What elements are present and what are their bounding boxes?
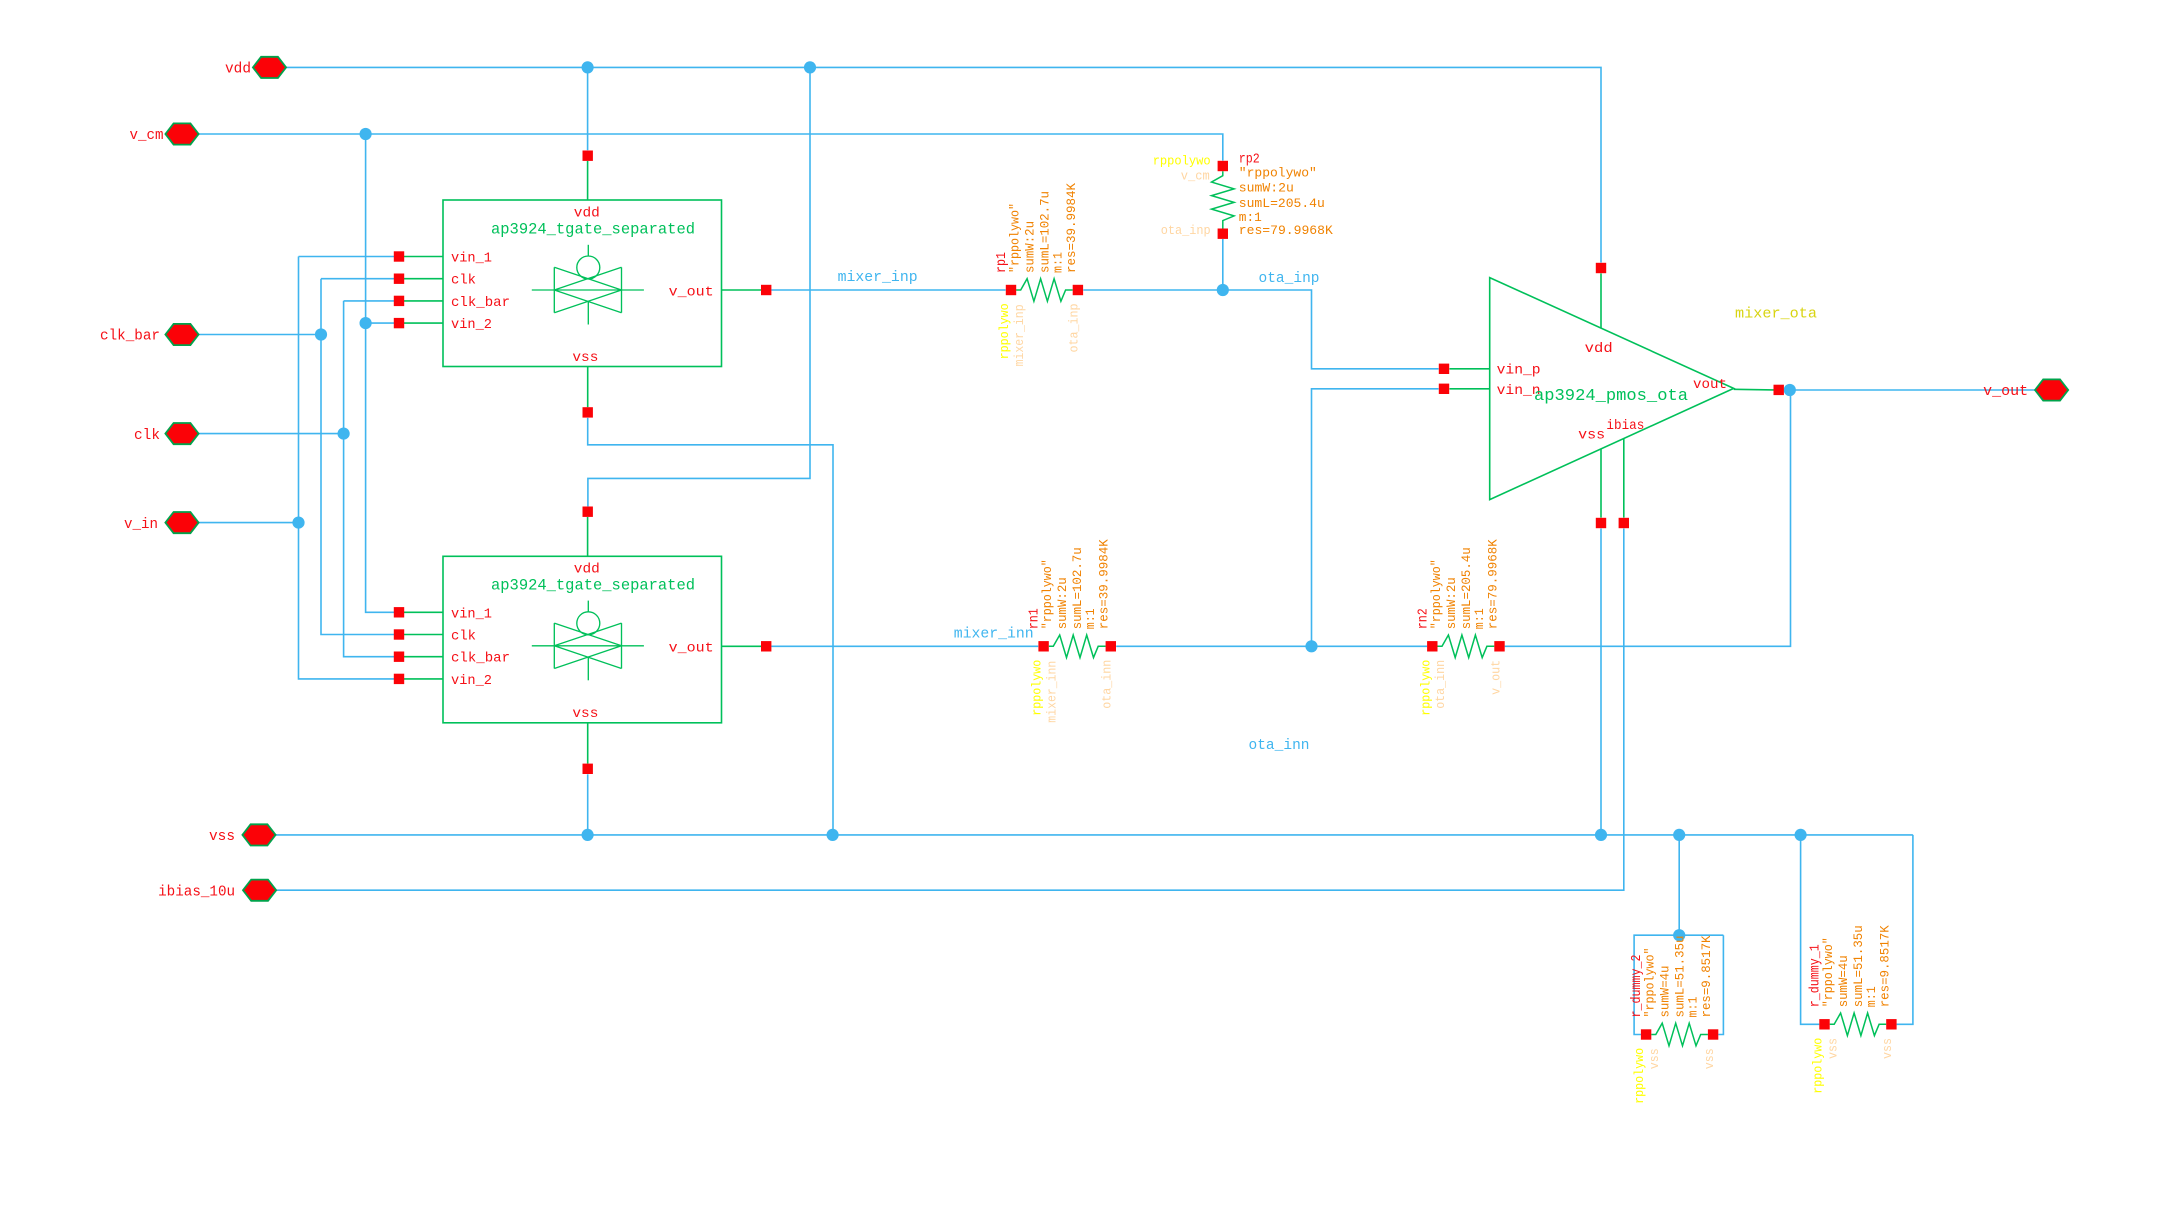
svg-text:vdd: vdd	[574, 206, 600, 222]
port vdd	[253, 57, 286, 78]
svg-text:vin_p: vin_p	[1497, 363, 1541, 379]
op-amp ibias stub	[1623, 439, 1625, 518]
svg-text:clk_bar: clk_bar	[451, 651, 510, 667]
tgate2 pin stub clk_bar	[404, 656, 443, 658]
pin r_dummy_1 right	[1886, 1019, 1896, 1029]
tgate1 pin stub vin_2	[404, 322, 443, 324]
svg-text:sumL=102.7u: sumL=102.7u	[1039, 191, 1053, 273]
wire rn2 to vout node	[1505, 390, 1791, 646]
junction clk_bar	[315, 328, 327, 340]
pin tgate1 v_out	[761, 285, 771, 295]
tgate2 pin stub vdd	[587, 517, 589, 556]
op-amp U1 triangle (ap3924_pmos_ota)	[1490, 278, 1734, 500]
wire vout to v_out pin	[1784, 389, 2036, 391]
junction v_cm	[360, 128, 372, 140]
wire net ota_inp	[1083, 290, 1438, 369]
pin opamp ibias	[1619, 518, 1629, 528]
pin tgate1 clk	[394, 274, 404, 284]
svg-text:clk_bar: clk_bar	[451, 295, 510, 311]
pin tgate2 clk	[394, 629, 404, 639]
tgate2 pin stub vin_2	[404, 678, 443, 680]
tgate1 pin stub vin_1	[404, 256, 443, 258]
resistor rp2 body	[1212, 171, 1235, 228]
junction clk	[338, 428, 350, 440]
svg-text:ibias: ibias	[1606, 418, 1644, 434]
tgate1 pin stub vss	[587, 367, 589, 408]
svg-text:v_out: v_out	[1489, 660, 1503, 695]
tgate cell 2 box (ap3924_tgate_separated)	[443, 556, 722, 723]
junction vss/r_dummy_1	[1795, 829, 1807, 841]
junction vss/tgate2	[582, 829, 594, 841]
svg-text:v_in: v_in	[124, 516, 158, 533]
svg-text:ota_inp: ota_inp	[1068, 304, 1082, 353]
pin rn1 right	[1106, 641, 1116, 651]
svg-text:vss: vss	[1703, 1048, 1717, 1069]
resistor r_dummy_1 body	[1830, 1013, 1887, 1036]
wire vdd to tgate2	[588, 67, 810, 506]
pin tgate1 vin_1	[394, 251, 404, 261]
svg-text:"rppolywo": "rppolywo"	[1041, 559, 1055, 629]
svg-text:vin_2: vin_2	[451, 317, 492, 333]
svg-text:vin_1: vin_1	[451, 606, 492, 622]
svg-text:ap3924_tgate_separated: ap3924_tgate_separated	[491, 576, 695, 594]
pin tgate2 vdd	[583, 507, 593, 517]
op-amp input stubs	[1450, 368, 1490, 370]
svg-text:vin_2: vin_2	[451, 673, 492, 689]
svg-text:vss: vss	[1881, 1038, 1895, 1059]
wire rp2 bottom to ota_inp	[1222, 239, 1224, 290]
pin tgate1 vss	[583, 407, 593, 417]
resistor rn1 body	[1049, 635, 1106, 658]
wire net mixer_inp	[771, 289, 1005, 291]
svg-text:mixer_inp: mixer_inp	[1013, 304, 1027, 366]
pin rn2 right	[1494, 641, 1504, 651]
svg-text:v_out: v_out	[1983, 383, 2028, 400]
svg-text:mixer_inn: mixer_inn	[954, 626, 1034, 643]
svg-text:vss: vss	[1578, 428, 1605, 444]
wire ota_inn to vin_n	[1312, 389, 1439, 647]
wire clk vertical bus	[344, 301, 394, 657]
svg-text:sumW=4u: sumW=4u	[1837, 955, 1851, 1007]
tgate2 pin stub v_out	[722, 645, 762, 647]
svg-text:vdd: vdd	[1585, 341, 1613, 357]
pin rn1 left	[1038, 641, 1048, 651]
port ibias_10u	[243, 880, 276, 901]
junction ota_inn	[1305, 640, 1317, 652]
wire net mixer_inn	[771, 645, 1038, 647]
wire clk_bar rail	[199, 334, 322, 336]
wire ibias rail	[276, 529, 1624, 891]
pin tgate1 vdd	[583, 151, 593, 161]
svg-text:"rppolywo": "rppolywo"	[1644, 948, 1658, 1018]
wire v_in rail	[199, 522, 299, 524]
pin tgate2 vin_1	[394, 607, 404, 617]
resistor rp1 body	[1011, 289, 1016, 291]
svg-text:sumL=51.35u: sumL=51.35u	[1852, 925, 1866, 1007]
port clk_bar	[165, 324, 198, 345]
svg-text:rppolywo: rppolywo	[998, 303, 1012, 359]
svg-text:vss: vss	[572, 350, 598, 366]
pin tgate1 vin_2	[394, 318, 404, 328]
tgate cell 1 box (ap3924_tgate_separated)	[443, 200, 722, 367]
svg-text:vdd: vdd	[574, 561, 600, 577]
wire tgate1 vss to vss rail	[588, 418, 833, 835]
pin rp2 top	[1218, 161, 1228, 171]
svg-text:v_out: v_out	[669, 641, 714, 657]
svg-text:rppolywo: rppolywo	[1153, 154, 1211, 169]
pin opamp vin_p	[1439, 364, 1449, 374]
svg-text:res=39.9984K: res=39.9984K	[1065, 183, 1079, 273]
junction v_cm/vin_2	[360, 317, 372, 329]
svg-text:clk: clk	[451, 273, 476, 289]
pin rp1 right	[1073, 285, 1083, 295]
pin opamp vin_n	[1439, 384, 1449, 394]
tgate1 pin stub v_out	[722, 289, 762, 291]
svg-text:vout: vout	[1693, 377, 1727, 393]
svg-text:v_cm: v_cm	[1181, 169, 1210, 184]
wire tgate2 vss to vss rail	[587, 774, 589, 835]
svg-text:sumW:2u: sumW:2u	[1024, 221, 1038, 273]
svg-text:sumL=205.4u: sumL=205.4u	[1460, 547, 1474, 629]
svg-text:rppolywo: rppolywo	[1633, 1048, 1647, 1104]
svg-text:vss: vss	[209, 828, 235, 845]
svg-text:ota_inp: ota_inp	[1161, 223, 1211, 238]
svg-text:sumW:2u: sumW:2u	[1239, 181, 1294, 196]
svg-text:ota_inn: ota_inn	[1249, 737, 1310, 754]
op-amp vout stub	[1734, 388, 1774, 391]
op-amp vdd stub	[1600, 273, 1602, 328]
pin opamp vout	[1774, 385, 1784, 395]
junction vss/r_dummy_2	[1673, 829, 1685, 841]
svg-text:ota_inn: ota_inn	[1101, 660, 1115, 709]
wire opamp vss to vss rail	[1600, 529, 1602, 835]
pin tgate1 clk_bar	[394, 296, 404, 306]
tgate2 pin stub vin_1	[404, 611, 443, 613]
pin r_dummy_2 right	[1708, 1029, 1718, 1039]
op-amp vss stub	[1600, 449, 1602, 518]
svg-text:res=79.9968K: res=79.9968K	[1239, 223, 1333, 238]
tgate2 pin stub vss	[587, 723, 589, 764]
svg-text:v_out: v_out	[669, 285, 714, 301]
svg-text:v_cm: v_cm	[130, 127, 164, 144]
wire vss rail	[276, 834, 1913, 836]
svg-text:m:1: m:1	[1865, 986, 1879, 1007]
junction vdd/tgate2	[804, 61, 816, 73]
svg-text:res=79.9968K: res=79.9968K	[1486, 539, 1500, 629]
wire vdd to tgate1	[587, 67, 589, 150]
port vss	[242, 824, 275, 845]
pin rp1 left	[1006, 285, 1016, 295]
port clk	[165, 423, 198, 444]
junction v_in	[292, 517, 304, 529]
resistor rn2 body	[1438, 635, 1495, 658]
tgate1 pin stub vdd	[587, 161, 589, 200]
tgate 1 symbol	[587, 245, 589, 256]
port v_cm	[165, 123, 198, 144]
svg-text:ota_inp: ota_inp	[1259, 270, 1320, 287]
svg-text:rppolywo: rppolywo	[1419, 660, 1433, 716]
svg-text:clk_bar: clk_bar	[100, 328, 160, 345]
svg-text:vss: vss	[572, 706, 598, 722]
svg-text:"rppolywo": "rppolywo"	[1009, 203, 1023, 273]
junction vss/tgate1	[827, 829, 839, 841]
junction vout	[1784, 384, 1796, 396]
pin r_dummy_1 left	[1819, 1019, 1829, 1029]
pin opamp vss	[1596, 518, 1606, 528]
svg-text:"rppolywo": "rppolywo"	[1822, 937, 1836, 1007]
svg-text:vss: vss	[1826, 1038, 1840, 1059]
junction vdd/tgate1	[582, 61, 594, 73]
pin r_dummy_2 left	[1641, 1029, 1651, 1039]
pin tgate2 clk_bar	[394, 652, 404, 662]
svg-text:res=9.8517K: res=9.8517K	[1700, 935, 1714, 1017]
svg-text:m:1: m:1	[1052, 252, 1066, 273]
svg-text:m:1: m:1	[1084, 608, 1098, 629]
svg-text:clk: clk	[451, 629, 476, 645]
tgate1 pin stub clk	[404, 278, 443, 280]
svg-text:mixer_inn: mixer_inn	[1046, 661, 1060, 723]
svg-text:sumL=51.35u: sumL=51.35u	[1674, 936, 1688, 1018]
svg-text:mixer_inp: mixer_inp	[838, 269, 918, 286]
pin rn2 left	[1427, 641, 1437, 651]
svg-text:ibias_10u: ibias_10u	[158, 883, 235, 900]
tgate2 pin stub clk	[404, 634, 443, 636]
svg-text:m:1: m:1	[1687, 997, 1701, 1018]
svg-text:clk: clk	[134, 427, 160, 444]
pin tgate2 vin_2	[394, 674, 404, 684]
svg-text:rppolywo: rppolywo	[1812, 1038, 1826, 1094]
pin tgate2 vss	[583, 764, 593, 774]
svg-text:sumW:2u: sumW:2u	[1056, 577, 1070, 629]
svg-text:"rppolywo": "rppolywo"	[1430, 559, 1444, 629]
wire clk rail	[199, 433, 344, 435]
junction r_dummy_2 top	[1673, 929, 1685, 941]
tgate 2 symbol	[587, 601, 589, 612]
svg-text:res=39.9984K: res=39.9984K	[1098, 539, 1112, 629]
junction vss/opamp	[1595, 829, 1607, 841]
port v_out	[2035, 379, 2068, 400]
resistor r_dummy_2 body	[1651, 1023, 1708, 1046]
wire r_dummy_1 loop	[1801, 835, 1820, 1024]
junction ota_inp	[1217, 284, 1229, 296]
pin opamp vdd	[1596, 263, 1606, 273]
wire v_cm rail to rp2	[199, 134, 1223, 161]
wire v_cm vertical bus	[366, 134, 394, 612]
svg-text:sumL=102.7u: sumL=102.7u	[1071, 547, 1085, 629]
wire r_dummy_2 loop	[1678, 835, 1680, 935]
svg-text:res=9.8517K: res=9.8517K	[1879, 925, 1893, 1007]
pin tgate2 v_out	[761, 641, 771, 651]
svg-text:m:1: m:1	[1473, 608, 1487, 629]
pin rp2 bottom	[1218, 229, 1228, 239]
svg-text:ap3924_tgate_separated: ap3924_tgate_separated	[491, 221, 695, 239]
wire v_in vertical bus	[299, 257, 395, 679]
svg-text:mixer_ota: mixer_ota	[1735, 306, 1817, 323]
wire clk_bar vertical bus	[321, 279, 394, 635]
svg-text:vin_1: vin_1	[451, 251, 492, 267]
tgate1 pin stub clk_bar	[404, 300, 443, 302]
svg-text:sumL=205.4u: sumL=205.4u	[1239, 196, 1325, 211]
svg-text:rppolywo: rppolywo	[1031, 660, 1045, 716]
wire net ota_inn	[1116, 645, 1427, 647]
wire vdd rail	[286, 67, 1601, 262]
port v_in	[165, 512, 198, 533]
svg-text:"rppolywo": "rppolywo"	[1239, 166, 1317, 181]
svg-text:ota_inn: ota_inn	[1434, 660, 1448, 709]
svg-text:vdd: vdd	[225, 61, 251, 78]
svg-text:ap3924_pmos_ota: ap3924_pmos_ota	[1534, 387, 1688, 406]
svg-text:sumW:2u: sumW:2u	[1445, 577, 1459, 629]
svg-text:sumW=4u: sumW=4u	[1659, 966, 1673, 1018]
svg-text:vss: vss	[1648, 1048, 1662, 1069]
